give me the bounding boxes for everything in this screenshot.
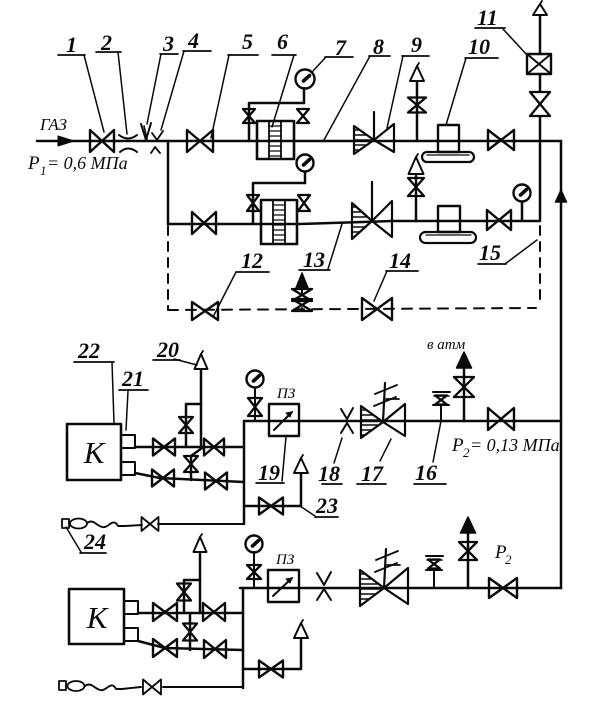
label 9 bbox=[387, 32, 429, 128]
purge valve 24 bbox=[142, 517, 159, 531]
label 20 bbox=[153, 337, 197, 365]
svg-text:17: 17 bbox=[361, 461, 384, 486]
text P2=0.13MPa bbox=[451, 435, 560, 460]
flow device 10 bbox=[422, 125, 474, 162]
row2 valve bbox=[192, 212, 216, 234]
regulator valve 13 bbox=[352, 182, 392, 239]
svg-text:22: 22 bbox=[77, 338, 100, 363]
K2 vent riser bbox=[199, 552, 202, 613]
svg-text:1: 1 bbox=[66, 32, 77, 57]
K relief branch bbox=[186, 404, 201, 447]
wire x540 row1 to row2 bbox=[539, 141, 542, 221]
svg-text:20: 20 bbox=[156, 337, 179, 362]
text PZ row3 bbox=[276, 386, 296, 402]
K upper pipe bbox=[135, 446, 244, 449]
sensor 16 bbox=[433, 392, 450, 421]
K2 stub upper bbox=[124, 601, 138, 614]
K upper valve B bbox=[204, 439, 224, 456]
valve 5 bbox=[187, 130, 213, 152]
svg-text:14: 14 bbox=[389, 248, 411, 273]
K2 link valve bbox=[183, 624, 197, 641]
regulator valve row4 bbox=[360, 549, 408, 606]
gauge 7 stem bbox=[303, 88, 306, 103]
filter2 jumper valve right bbox=[298, 195, 310, 211]
K link jog bbox=[191, 448, 202, 480]
row2 gauge bbox=[514, 185, 531, 202]
svg-text:21: 21 bbox=[121, 366, 144, 391]
K link valve bbox=[184, 456, 198, 472]
K vent riser 20 bbox=[200, 369, 203, 447]
valve 1 bbox=[90, 130, 114, 152]
K stub upper bbox=[121, 435, 135, 448]
svg-text:19: 19 bbox=[258, 460, 280, 485]
row3 outlet valve P2 bbox=[488, 408, 514, 430]
svg-text:9: 9 bbox=[411, 32, 422, 57]
K2 stub lower bbox=[124, 628, 138, 641]
orifice 18 bbox=[341, 408, 353, 433]
filter2 gauge stem bbox=[304, 172, 307, 183]
K upper valve A bbox=[153, 439, 175, 456]
svg-text:3: 3 bbox=[162, 31, 174, 56]
atm vent riser row3 bbox=[463, 369, 466, 421]
row2 gauge stem bbox=[521, 202, 524, 220]
svg-text:12: 12 bbox=[241, 248, 263, 273]
K2 lower valve C bbox=[153, 639, 177, 657]
label 5 bbox=[211, 29, 258, 138]
svg-text:23: 23 bbox=[315, 493, 338, 518]
svg-text:К: К bbox=[83, 435, 107, 470]
row4 gauge bbox=[246, 536, 263, 553]
dashed bypass bottom bbox=[168, 308, 536, 310]
svg-text:= 0,13 МПа: = 0,13 МПа bbox=[470, 435, 560, 455]
wire below meter 11 bbox=[539, 74, 542, 92]
branch drop from row1 bbox=[167, 141, 170, 224]
atm vent valve row3 bbox=[454, 377, 474, 397]
svg-text:13: 13 bbox=[303, 247, 325, 272]
atm vent valve row4 bbox=[459, 542, 477, 560]
svg-text:16: 16 bbox=[415, 460, 437, 485]
svg-text:2: 2 bbox=[505, 552, 512, 567]
label 8 bbox=[324, 34, 390, 140]
wire valve to row1 bbox=[539, 116, 542, 141]
label 7 bbox=[313, 35, 353, 71]
svg-text:в атм: в атм bbox=[427, 337, 466, 353]
unit K box 2 bbox=[69, 589, 124, 644]
row2 riser valve bbox=[408, 178, 424, 196]
valve below meter 11 bbox=[530, 92, 550, 116]
safety riser 9 bbox=[416, 82, 419, 141]
svg-text:18: 18 bbox=[318, 461, 340, 486]
purge line 24 bbox=[87, 522, 244, 528]
filter2 gauge bbox=[297, 155, 314, 172]
vent arrow 11 bbox=[533, 1, 547, 15]
filter 6 bbox=[257, 121, 294, 159]
vent arrow 9 bbox=[410, 63, 424, 81]
row3 main line bbox=[244, 420, 561, 423]
row2 outlet valve bbox=[487, 210, 511, 230]
wire row2 main bbox=[168, 221, 539, 224]
row4 outlet valve bbox=[489, 578, 517, 598]
filter 2 bbox=[261, 200, 297, 244]
label 24 bbox=[66, 527, 106, 554]
purge fitting 24 bbox=[62, 519, 87, 529]
meter 11 square bbox=[527, 54, 551, 74]
branch 23 arrow bbox=[294, 455, 308, 473]
text v atm bbox=[427, 337, 466, 353]
row4 main line bbox=[240, 587, 561, 590]
collector header row3 bbox=[243, 421, 246, 524]
K2 lower valve D bbox=[204, 640, 226, 658]
bypass valve 14 bbox=[362, 298, 392, 320]
row3 gauge valve bbox=[248, 388, 262, 421]
filter2 jumper valve left bbox=[247, 195, 259, 211]
riser valve 9 bbox=[408, 98, 426, 113]
filter2 jumper bbox=[253, 183, 305, 223]
row2 vent arrow bbox=[409, 154, 424, 174]
K relief valve bbox=[179, 417, 193, 433]
branch 23-2 valve bbox=[259, 661, 283, 678]
svg-text:2: 2 bbox=[463, 445, 470, 460]
pilot PZ box 2 bbox=[268, 570, 299, 602]
jumper valve right bbox=[297, 109, 309, 123]
regulator valve 8 bbox=[354, 112, 394, 154]
label 22 bbox=[74, 338, 114, 423]
svg-text:15: 15 bbox=[479, 240, 501, 265]
sensor row4 bbox=[426, 556, 443, 588]
unit K box 22 bbox=[67, 424, 121, 480]
collector header row4 bbox=[242, 588, 245, 688]
K lower valve C bbox=[152, 470, 174, 487]
svg-text:ГАЗ: ГАЗ bbox=[39, 115, 68, 134]
row4 gauge valve bbox=[247, 552, 261, 588]
label 12 bbox=[213, 248, 269, 317]
label 17 bbox=[357, 439, 391, 486]
orifice marks 4 bbox=[151, 131, 163, 153]
atm vent riser row4 bbox=[467, 533, 470, 588]
text GAZ bbox=[39, 115, 68, 134]
label 21 bbox=[119, 366, 148, 430]
row3 gauge bbox=[247, 371, 264, 388]
text P1=0.6MPa bbox=[27, 153, 128, 178]
regulator valve 17 bbox=[361, 383, 405, 438]
branch 23-2 pipe bbox=[243, 638, 301, 669]
inlet gas pipe with flow arrow bbox=[37, 136, 91, 146]
atm vent arrow row4 bbox=[461, 517, 476, 533]
purge fitting row4 bbox=[59, 681, 85, 691]
label 1 bbox=[58, 32, 104, 132]
K stub lower bbox=[121, 462, 135, 475]
text P2 row4 bbox=[494, 542, 512, 567]
branch 23 valve bbox=[259, 498, 283, 515]
label 15 bbox=[478, 240, 537, 265]
vent line 11 bbox=[539, 15, 542, 54]
label 10 bbox=[446, 34, 498, 125]
label 23 bbox=[300, 493, 338, 518]
svg-text:ПЗ: ПЗ bbox=[276, 386, 296, 402]
svg-text:11: 11 bbox=[477, 5, 498, 30]
output header vertical bbox=[560, 141, 563, 588]
label 2 bbox=[96, 30, 127, 134]
jumper valve left bbox=[243, 109, 255, 123]
K lower pipe bbox=[135, 473, 244, 482]
flow device row2 bbox=[420, 206, 476, 243]
K2 lower pipe bbox=[138, 641, 243, 650]
label 16 bbox=[414, 421, 446, 485]
svg-text:P: P bbox=[27, 153, 40, 174]
label 18 bbox=[318, 438, 342, 486]
dashed bypass left drop bbox=[167, 226, 169, 310]
label 4 bbox=[161, 28, 211, 130]
K2 vent arrow bbox=[194, 534, 207, 552]
pilot PZ box 19 bbox=[269, 404, 299, 436]
svg-text:5: 5 bbox=[242, 29, 253, 54]
bypass valve 12 bbox=[192, 302, 218, 320]
K2 relief valve bbox=[177, 584, 191, 601]
wire row1 main bbox=[91, 140, 561, 143]
dashed bypass right riser 15 bbox=[539, 226, 541, 306]
svg-text:24: 24 bbox=[83, 529, 106, 554]
gauge 7 bbox=[296, 70, 315, 89]
K2 relief branch bbox=[184, 580, 200, 613]
svg-text:6: 6 bbox=[277, 29, 288, 54]
purge valve row4 bbox=[143, 680, 161, 695]
K2 upper pipe bbox=[138, 612, 243, 615]
bypass relief valve bbox=[292, 288, 312, 311]
orifice row4 bbox=[317, 572, 331, 600]
svg-text:10: 10 bbox=[468, 34, 490, 59]
svg-text:4: 4 bbox=[187, 28, 199, 53]
label 13 bbox=[299, 224, 342, 272]
K2 link pipe bbox=[189, 613, 192, 650]
K2 upper valve B bbox=[203, 603, 225, 621]
text PZ row4 bbox=[275, 552, 295, 568]
label 11 bbox=[475, 5, 527, 55]
atm vent arrow row3 bbox=[457, 352, 472, 368]
label 6 bbox=[272, 29, 296, 127]
svg-text:ПЗ: ПЗ bbox=[275, 552, 295, 568]
bypass relief arrow bbox=[296, 273, 308, 288]
svg-text:= 0,6 МПа: = 0,6 МПа bbox=[47, 153, 128, 173]
thermowell 3 bbox=[141, 123, 151, 140]
svg-text:К: К bbox=[86, 600, 110, 635]
expansion joint 2 bbox=[119, 135, 137, 152]
filter 6 bypass jumper bbox=[249, 103, 304, 141]
purge line row4 bbox=[85, 685, 243, 691]
row2 vent riser bbox=[415, 176, 418, 221]
flow arrow on header bbox=[556, 190, 567, 202]
label 14 bbox=[374, 248, 418, 301]
label 3 bbox=[147, 31, 178, 124]
valve after device 10 bbox=[488, 130, 514, 150]
label 19 bbox=[256, 437, 286, 485]
branch 23-2 arrow bbox=[294, 620, 308, 638]
K lower valve D bbox=[205, 473, 227, 490]
svg-text:1: 1 bbox=[40, 163, 47, 178]
K2 upper valve A bbox=[153, 603, 177, 621]
branch 23 pipe bbox=[244, 473, 301, 506]
K vent arrow 20 bbox=[195, 351, 208, 369]
